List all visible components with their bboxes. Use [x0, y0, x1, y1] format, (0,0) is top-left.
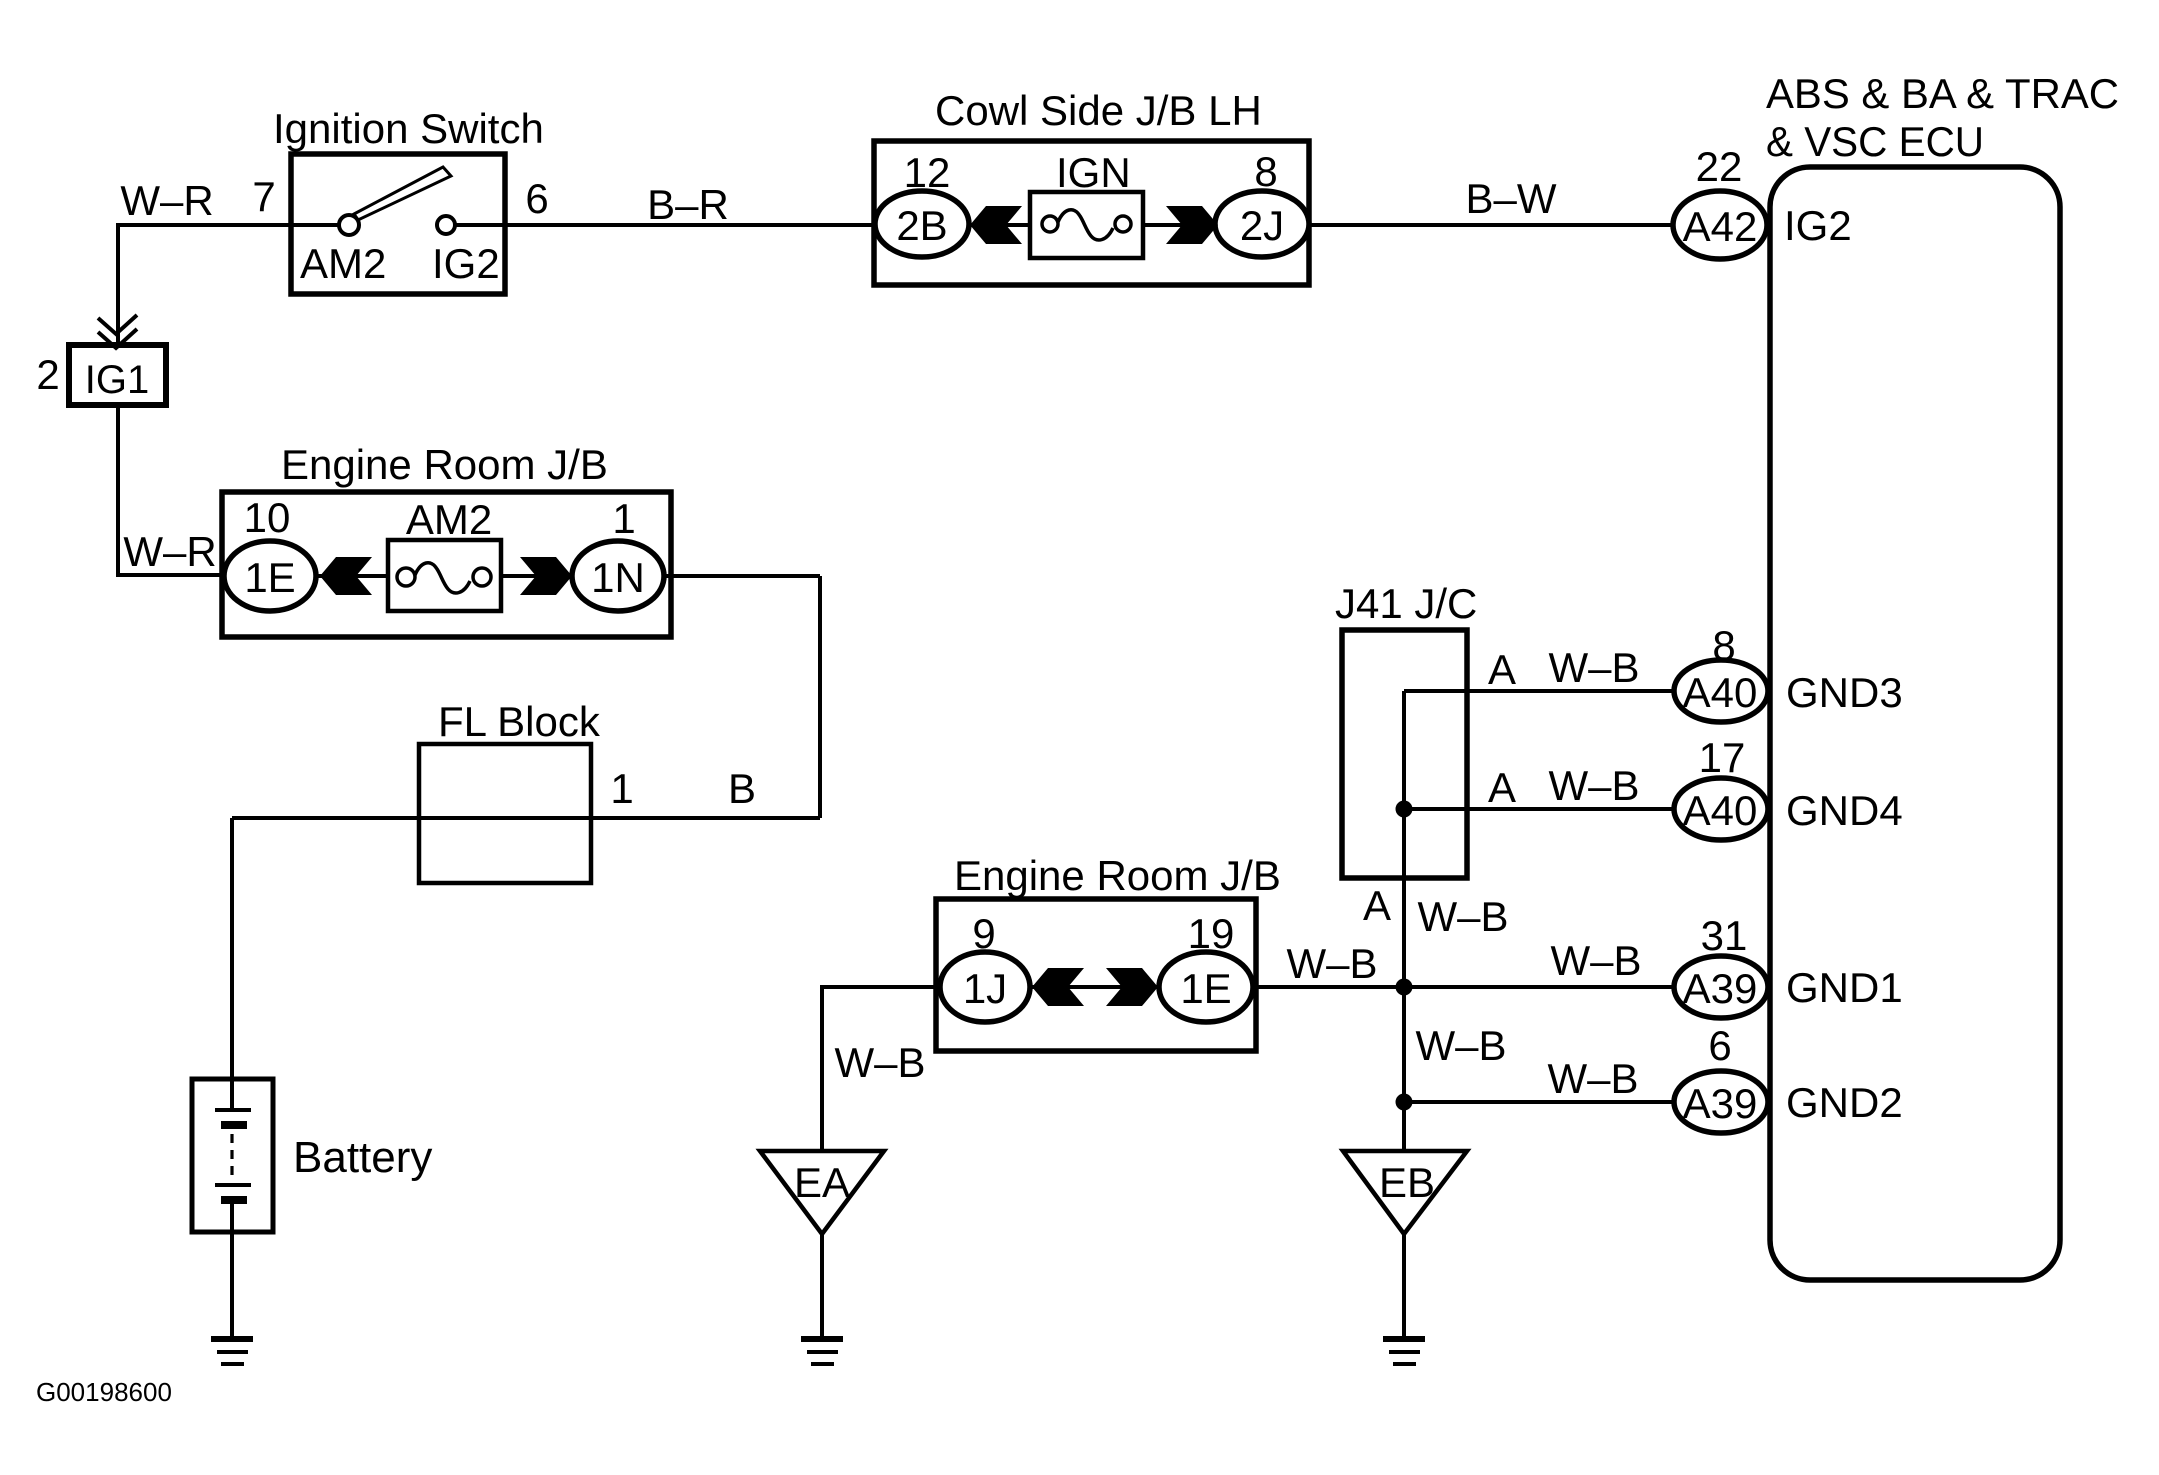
svg-text:1E: 1E [244, 554, 295, 601]
svg-text:1J: 1J [963, 965, 1007, 1012]
svg-text:IG2: IG2 [432, 240, 500, 287]
svg-text:Battery: Battery [293, 1133, 432, 1182]
svg-text:7: 7 [252, 173, 275, 220]
svg-text:& VSC ECU: & VSC ECU [1766, 118, 1984, 165]
svg-text:31: 31 [1701, 912, 1748, 959]
svg-text:2J: 2J [1240, 202, 1284, 249]
svg-text:A: A [1488, 764, 1516, 811]
svg-text:A39: A39 [1683, 1080, 1758, 1127]
svg-text:19: 19 [1188, 910, 1235, 957]
svg-text:A40: A40 [1683, 787, 1758, 834]
svg-text:W–B: W–B [834, 1039, 925, 1086]
svg-text:W–B: W–B [1286, 940, 1377, 987]
svg-text:EA: EA [794, 1159, 850, 1206]
svg-text:GND1: GND1 [1786, 964, 1903, 1011]
svg-text:A: A [1363, 882, 1391, 929]
svg-text:2B: 2B [896, 202, 947, 249]
svg-text:2: 2 [36, 351, 59, 398]
svg-text:17: 17 [1699, 734, 1746, 781]
svg-text:10: 10 [244, 494, 291, 541]
svg-text:J41 J/C: J41 J/C [1335, 580, 1477, 627]
svg-text:W–B: W–B [1548, 644, 1639, 691]
svg-text:1: 1 [610, 765, 633, 812]
svg-text:ABS & BA & TRAC: ABS & BA & TRAC [1766, 70, 2119, 117]
svg-text:B–W: B–W [1465, 175, 1556, 222]
svg-text:22: 22 [1696, 143, 1743, 190]
svg-text:GND2: GND2 [1786, 1079, 1903, 1126]
svg-text:A42: A42 [1683, 203, 1758, 250]
svg-text:GND3: GND3 [1786, 669, 1903, 716]
svg-text:6: 6 [1708, 1022, 1731, 1069]
svg-text:W–R: W–R [123, 528, 216, 575]
svg-text:B: B [728, 765, 756, 812]
svg-text:Cowl Side J/B LH: Cowl Side J/B LH [935, 87, 1262, 134]
svg-text:W–B: W–B [1548, 762, 1639, 809]
svg-text:1E: 1E [1180, 965, 1231, 1012]
svg-text:A: A [1488, 646, 1516, 693]
svg-text:6: 6 [525, 175, 548, 222]
svg-text:FL Block: FL Block [438, 698, 601, 745]
svg-text:AM2: AM2 [300, 240, 386, 287]
svg-text:W–B: W–B [1417, 893, 1508, 940]
svg-text:A39: A39 [1683, 965, 1758, 1012]
svg-text:IGN: IGN [1056, 149, 1131, 196]
svg-text:8: 8 [1712, 622, 1735, 669]
svg-text:W–R: W–R [120, 177, 213, 224]
svg-text:W–B: W–B [1415, 1022, 1506, 1069]
svg-text:IG1: IG1 [85, 358, 149, 402]
svg-text:9: 9 [972, 910, 995, 957]
svg-text:1: 1 [612, 495, 635, 542]
svg-text:GND4: GND4 [1786, 787, 1903, 834]
svg-text:W–B: W–B [1547, 1055, 1638, 1102]
svg-text:12: 12 [904, 149, 951, 196]
svg-text:1N: 1N [591, 554, 645, 601]
svg-text:AM2: AM2 [406, 496, 492, 543]
svg-text:Engine Room J/B: Engine Room J/B [281, 441, 608, 488]
svg-text:Engine Room J/B: Engine Room J/B [954, 852, 1281, 899]
svg-text:IG2: IG2 [1784, 202, 1852, 249]
svg-text:8: 8 [1254, 148, 1277, 195]
svg-text:B–R: B–R [647, 181, 729, 228]
svg-text:Ignition Switch: Ignition Switch [273, 105, 544, 152]
svg-text:A40: A40 [1683, 669, 1758, 716]
svg-text:W–B: W–B [1550, 937, 1641, 984]
svg-text:G00198600: G00198600 [36, 1377, 172, 1407]
svg-text:EB: EB [1379, 1159, 1435, 1206]
